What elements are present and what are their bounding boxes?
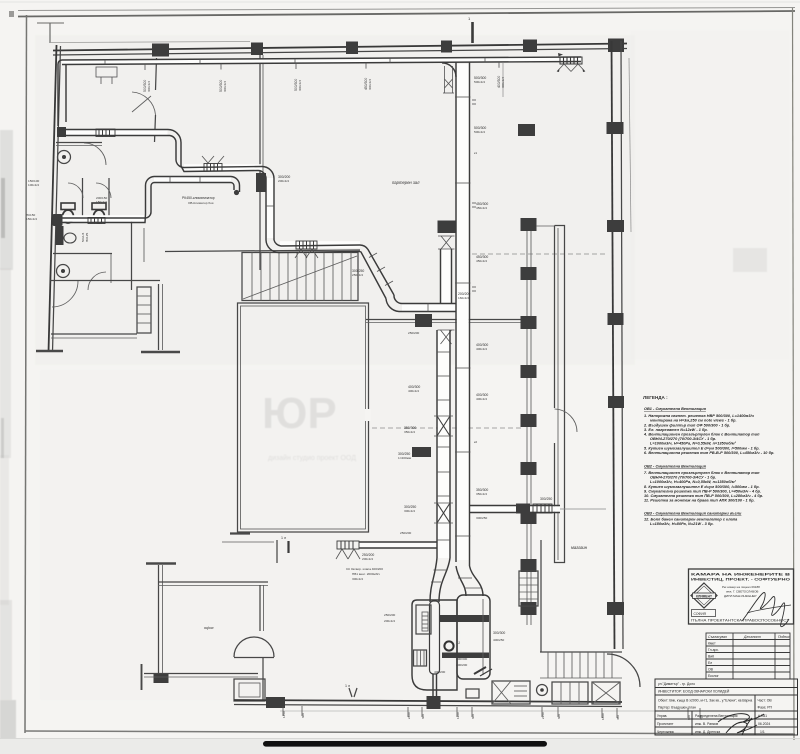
- V2 column 3: [521, 316, 537, 329]
- wall V1 pier dark: [256, 173, 266, 192]
- room R2 outline: [238, 303, 369, 532]
- branch D5 register hatched: [337, 541, 359, 549]
- stairs upper wall: [165, 250, 360, 252]
- wc toilet 1: [61, 203, 75, 210]
- svg-text:2150: 2150: [541, 712, 545, 719]
- D2 tick: [266, 205, 274, 207]
- top wall column 2: [251, 43, 263, 56]
- approval table T1: [706, 633, 790, 679]
- svg-text:ПК125: ПК125: [85, 233, 89, 242]
- T2 signature scribbles: [718, 714, 764, 723]
- narrow tall room C: [555, 226, 565, 563]
- left duct run parallel to trunk: [436, 330, 438, 558]
- branch B1 grille dark: [438, 221, 456, 234]
- sheet border right: [793, 8, 795, 740]
- vestibule nested rect inner: [239, 683, 260, 697]
- wall segment left of R3 top: [222, 541, 274, 543]
- floating column block mid room: [518, 124, 535, 136]
- svg-text:ИНВЕСТИЦ. ПРОЕКТ. - СОФТУЕРНО: ИНВЕСТИЦ. ПРОЕКТ. - СОФТУЕРНО: [691, 578, 790, 582]
- stamp box: [689, 569, 794, 624]
- dimension line below bottom wall: [280, 710, 700, 712]
- toilet entry diagonal door: [132, 96, 151, 112]
- B1 damper X: [441, 236, 452, 249]
- V2 column 2: [521, 267, 537, 280]
- svg-text:Рег.номер на лиценз 09188: Рег.номер на лиценз 09188: [722, 585, 760, 589]
- svg-text:инж. Г. СВЕТОСЛАВОВ: инж. Г. СВЕТОСЛАВОВ: [726, 590, 758, 594]
- staircase diagonal: [243, 256, 357, 299]
- svg-text:дизайн студио проект ООД: дизайн студио проект ООД: [268, 454, 356, 462]
- right wall column 4: [608, 396, 624, 408]
- svg-text:Длъжност: Длъжност: [743, 635, 761, 639]
- svg-text:300х1/4: 300х1/4: [501, 77, 505, 88]
- svg-text:300х1/4: 300х1/4: [352, 577, 363, 581]
- svg-text:300х1/4: 300х1/4: [368, 79, 372, 90]
- left scan-edge smudge band 2: [0, 268, 11, 458]
- D3 corner to west: [60, 212, 151, 218]
- svg-text:150х1/4: 150х1/4: [96, 200, 107, 204]
- V2 column 8: [521, 559, 537, 572]
- svg-text:300/250: 300/250: [476, 516, 487, 520]
- faint line across bottom: [0, 738, 800, 740]
- right wall offset faint line: [629, 58, 631, 232]
- svg-text:Проектант: Проектант: [657, 722, 674, 726]
- branch B3 duct right: [470, 505, 560, 507]
- sheet border left: [25, 15, 27, 733]
- svg-text:ОВН/4-270/270 (70/700-3/4СУ -: ОВН/4-270/270 (70/700-3/4СУ - 1 бр.: [650, 437, 716, 441]
- wc toilet 2: [92, 203, 106, 210]
- svg-text:250/200: 250/200: [408, 331, 419, 335]
- damper slash right of AHU: [474, 667, 486, 674]
- svg-text:ОВ3 - Смукателна Вентилация са: ОВ3 - Смукателна Вентилация санитарни въ…: [644, 512, 742, 516]
- B3 dark fitting: [516, 504, 530, 514]
- stairs bottom right treads: [540, 651, 622, 653]
- svg-text:1. Напорожна нагнет. решетка: 1. Напорожна нагнет. решетка НВР 500/300…: [644, 414, 755, 418]
- sheet border top outer: [18, 8, 795, 11]
- svg-text:инж. В. Ранков: инж. В. Ранков: [695, 722, 718, 726]
- svg-text:400/200: 400/200: [456, 663, 467, 667]
- D2 register hatched 1: [96, 129, 115, 137]
- bottom-right door arc: [607, 654, 640, 687]
- svg-text:150х1/4: 150х1/4: [26, 217, 37, 221]
- equipment box row 2: [592, 682, 620, 704]
- R3 right wall lower: [262, 658, 264, 700]
- riser stub below wall column: [443, 66, 454, 93]
- AHU duct sleeve through: [430, 601, 440, 674]
- bottom wall dark block: [266, 697, 285, 708]
- svg-text:250/200: 250/200: [384, 613, 395, 617]
- svg-text:5. Кутиен шумозаглушител Е d: 5. Кутиен шумозаглушител Е d=ум 500/300,…: [644, 447, 760, 451]
- svg-text:450х1/4: 450х1/4: [476, 259, 487, 263]
- lower room door arc: [52, 281, 78, 307]
- small register under D1: [96, 67, 117, 77]
- svg-text:КЛИМЕНТ: КЛИМЕНТ: [696, 594, 712, 598]
- svg-text:Чертожник: Чертожник: [657, 730, 674, 734]
- D1 end register hatched: [557, 53, 585, 72]
- trunk S-jog into right unit: [456, 566, 466, 596]
- svg-text:ДИПЛ.МАШ.ИНЖЕНЕР: ДИПЛ.МАШ.ИНЖЕНЕР: [724, 594, 757, 598]
- section marks bottom center: [349, 688, 352, 697]
- svg-text:2. Въздушен филтър тип ОФ 50: 2. Въздушен филтър тип ОФ 500/300 - 1 бр…: [643, 424, 730, 428]
- bottom-left room R3 top cap: [146, 562, 176, 564]
- svg-text:партерен зал: партерен зал: [392, 180, 420, 185]
- V2 column 5: [521, 414, 537, 427]
- trunk joint ticks: [455, 97, 476, 536]
- right-side faint blotch: [733, 248, 767, 272]
- left dark streak 2: [1, 418, 4, 458]
- svg-text:Част: ОВ: Част: ОВ: [758, 699, 773, 703]
- svg-text:Обект: Вик, къща В х2000, м-т1: Обект: Вик, къща В х2000, м-т1, Зак кв.,…: [658, 699, 752, 703]
- toilet-block right wall segment: [131, 221, 133, 290]
- D2 register hatched 3: [296, 241, 317, 249]
- D2 diagonal section: [360, 245, 394, 295]
- svg-text:300х1/4: 300х1/4: [223, 81, 227, 92]
- R3 bottom-left I-serif: [141, 664, 143, 690]
- faint top scan line: [0, 2, 800, 3]
- R3 top wall: [158, 581, 268, 583]
- AHU dark band 2: [442, 653, 489, 659]
- louver unit L1: [492, 681, 530, 704]
- dim ticks below bottom wall: [283, 706, 700, 718]
- left scan-edge smudge band: [0, 130, 13, 270]
- AHU right unit: [457, 595, 490, 679]
- svg-text:8. Кутиен шумозаглушител Е d: 8. Кутиен шумозаглушител Е d=ум 500/300,…: [644, 485, 760, 489]
- equipment box row 1: [552, 682, 588, 704]
- faint dashed line upper right room: [472, 253, 608, 255]
- V2 column 4: [521, 365, 537, 378]
- damper dark box at wall junction: [415, 314, 432, 327]
- wall left of bottom stairs: [540, 540, 542, 652]
- D1 joint ticks: [105, 58, 485, 65]
- D2 corner 2 down: [262, 167, 274, 241]
- stall door arc 1: [68, 183, 83, 198]
- top-left tick detail vertical: [49, 23, 51, 43]
- duct D3 horizontal (PK450): [154, 176, 231, 178]
- wall above R3: [276, 540, 278, 563]
- left scan-edge smudge band 3: [0, 455, 9, 605]
- V2 column 1: [521, 218, 537, 231]
- bottom exterior wall: [234, 700, 622, 702]
- ladder box below room C: [519, 571, 538, 606]
- R3 door arc: [234, 637, 274, 657]
- svg-text:магазин: магазин: [571, 545, 588, 550]
- stall bottom wall: [53, 253, 112, 255]
- svg-text:250х1/4: 250х1/4: [352, 273, 363, 277]
- svg-text:Управ.: Управ.: [657, 714, 667, 718]
- left dark streak: [1, 178, 5, 238]
- svg-text:ЮР: ЮР: [262, 389, 337, 438]
- sleeve tail: [432, 674, 434, 697]
- main trunk duct vertical: [455, 62, 457, 562]
- svg-text:400/250: 400/250: [493, 638, 504, 642]
- B3 thin continuation: [560, 508, 606, 510]
- svg-text:06.2024: 06.2024: [758, 722, 770, 726]
- svg-text:к1: к1: [474, 151, 477, 155]
- R3 bottom wall: [144, 673, 258, 675]
- svg-text:ОВН/4-270/270 (70/700-3/4СУ -: ОВН/4-270/270 (70/700-3/4СУ - 1 бр.: [650, 476, 716, 480]
- svg-text:ул."Димитър" - гр. Доло: ул."Димитър" - гр. Доло: [658, 682, 695, 686]
- bottom-left corner smudge: [0, 700, 16, 754]
- svg-text:L=180м3/ч, Н=80Ра, N=21W - 3 б: L=180м3/ч, Н=80Ра, N=21W - 3 бр.: [650, 522, 714, 526]
- AHU fan: [444, 641, 453, 650]
- svg-text:Съгласувал: Съгласувал: [708, 635, 727, 639]
- left run damper X 2: [437, 503, 450, 523]
- left run S-jog into AHU sleeve: [430, 558, 437, 602]
- sheet border bottom: [25, 731, 795, 734]
- right wall column 5: [607, 602, 624, 615]
- svg-text:500х1/4: 500х1/4: [474, 80, 485, 84]
- wall H1 under duct: [366, 319, 533, 321]
- D2 register hatched 2: [204, 164, 222, 172]
- branch B2 damper X below wall: [441, 330, 452, 344]
- D2 diagonal ticks: [369, 253, 377, 258]
- room R2 right-wall opening: [365, 409, 371, 421]
- svg-text:ПЪЛНА ПРОЕКТАНТСКА ПРАВОСПОСОБ: ПЪЛНА ПРОЕКТАНТСКА ПРАВОСПОСОБНОСТ: [691, 619, 789, 623]
- svg-text:100х1/4: 100х1/4: [28, 183, 39, 187]
- svg-text:Партер: Въздушен план: Партер: Въздушен план: [658, 706, 696, 710]
- svg-text:Гл.арх.: Гл.арх.: [708, 648, 719, 652]
- room C inner line: [557, 228, 559, 560]
- toilet block footing serif right: [141, 351, 180, 354]
- drop pipe dark: [56, 226, 64, 245]
- svg-text:600: 600: [421, 714, 425, 719]
- stall right wall lower: [110, 254, 112, 283]
- left exterior wall: [49, 45, 57, 352]
- svg-text:300х1/4: 300х1/4: [298, 80, 302, 91]
- lower room bottom wall: [51, 333, 137, 335]
- wall register dark left: [412, 447, 431, 457]
- right wall column 2: [607, 220, 624, 232]
- B3 hatch fitting: [533, 504, 552, 513]
- svg-text:300/300: 300/300: [493, 631, 505, 635]
- svg-text:7. Вентилационен прозвъртуле: 7. Вентилационен прозвъртулен блок с Вен…: [644, 471, 760, 475]
- duct drop along left wall: [57, 70, 59, 126]
- toilet door arc upper: [84, 143, 106, 165]
- D3/D4 register hatched: [88, 218, 105, 224]
- D2 end tick: [427, 304, 429, 312]
- svg-text:1/1: 1/1: [760, 730, 765, 734]
- svg-text:Ел: Ел: [708, 661, 712, 665]
- duct interiors white: [59, 57, 582, 560]
- top exterior wall: [53, 44, 627, 51]
- svg-text:1=200мм: 1=200мм: [398, 456, 411, 460]
- room C top connector: [536, 225, 554, 227]
- svg-text:300/250: 300/250: [540, 497, 552, 501]
- svg-text:600: 600: [471, 714, 475, 719]
- svg-text:1200: 1200: [456, 712, 460, 719]
- svg-text:Разпределена Вентилация: Разпределена Вентилация: [695, 714, 738, 718]
- svg-text:Еколог: Еколог: [708, 674, 719, 678]
- bottom stall door arc: [88, 272, 106, 290]
- sleeve bottom dark block: [427, 696, 441, 709]
- faint drop line near label: [502, 63, 504, 97]
- svg-text:200х1/4: 200х1/4: [384, 619, 395, 623]
- stall door arc 2: [96, 183, 111, 198]
- main title block T2: [655, 679, 798, 735]
- svg-text:ЛЕГЕНДА :: ЛЕГЕНДА :: [643, 395, 668, 400]
- svg-text:1450: 1450: [282, 711, 286, 718]
- svg-text:РК450-климатизатор: РК450-климатизатор: [182, 196, 215, 200]
- R3 right wall upper: [259, 585, 261, 631]
- D2 corner 1: [168, 130, 181, 167]
- left wall footing serif: [36, 350, 63, 353]
- AHU hatched ladder lower-left: [414, 650, 427, 666]
- section flag top: [471, 22, 474, 43]
- sheet border top inner: [18, 11, 795, 17]
- left run joint ticks: [437, 352, 450, 540]
- svg-text:КАМАРА НА ИНЖЕНЕРИТЕ В: КАМАРА НА ИНЖЕНЕРИТЕ В: [691, 573, 790, 577]
- trunk tee fillet: [442, 63, 456, 77]
- AHU dark band 1: [439, 615, 489, 622]
- svg-text:600: 600: [301, 713, 305, 718]
- toilet stall wall 2: [108, 178, 110, 218]
- svg-text:160х1/4: 160х1/4: [458, 296, 469, 300]
- svg-text:ОВ: ОВ: [708, 668, 714, 672]
- svg-text:ИНВЕСТИТОР: ЕООД ОВЧАРСКИ ХОЛИ: ИНВЕСТИТОР: ЕООД ОВЧАРСКИ ХОЛИДЕЙ: [658, 689, 730, 693]
- svg-text:СОФИЯ: СОФИЯ: [694, 612, 707, 616]
- svg-text:Фаза: РП: Фаза: РП: [758, 706, 773, 710]
- right wall column 3: [608, 313, 624, 325]
- D3 left elbow: [145, 177, 154, 213]
- svg-text:10. Смукателна решетка тип ПВ-: 10. Смукателна решетка тип ПВ-Р 500/300,…: [644, 494, 763, 498]
- svg-text:монтирана на Н=3м,250 см note: монтирана на Н=3м,250 см note views - 1 …: [650, 419, 737, 423]
- svg-text:400/200: 400/200: [434, 670, 445, 674]
- scan tone washes: [35, 35, 635, 365]
- svg-text:ОВ2 - Смукателна Вентилация: ОВ2 - Смукателна Вентилация: [644, 465, 707, 469]
- svg-text:СК Затвор. клапа 400/200: СК Затвор. клапа 400/200: [346, 567, 383, 571]
- toilet wall horizontal upper: [56, 142, 102, 144]
- sink oval: [64, 233, 76, 243]
- toilet duct intake dark end: [57, 127, 66, 137]
- svg-text:300х1/4: 300х1/4: [147, 81, 151, 92]
- svg-text:1: 1: [458, 641, 460, 645]
- right exterior wall: [612, 41, 615, 649]
- svg-text:450х1/4: 450х1/4: [476, 206, 487, 210]
- svg-text:ВиК: ВиК: [708, 655, 714, 659]
- AHU bottom exit box: [466, 689, 479, 698]
- lower room ladder rect: [137, 287, 151, 333]
- heavy black bar bottom: [263, 741, 547, 747]
- faint dashed line mid right room: [372, 427, 524, 429]
- toilet wall vertical mid: [156, 58, 157, 90]
- lower room right wall: [158, 284, 160, 350]
- R3 left wall dark block: [154, 673, 169, 683]
- svg-text:ОВ-Климатор боя: ОВ-Климатор боя: [188, 201, 214, 205]
- left scan-edge smudge band 4: [0, 600, 12, 700]
- svg-text:400/300: 400/300: [456, 657, 467, 661]
- svg-text:офис: офис: [204, 625, 214, 630]
- AHU left protruding box: [416, 605, 431, 634]
- svg-text:450: 450: [616, 715, 620, 720]
- svg-text:250/200: 250/200: [400, 531, 411, 535]
- V2 column 7: [521, 511, 537, 524]
- svg-text:600: 600: [557, 714, 561, 719]
- room C door arc: [555, 409, 578, 432]
- svg-text:1 л: 1 л: [281, 536, 286, 540]
- D1 top-left elbow: [58, 60, 62, 70]
- section flag bottom: [287, 541, 289, 553]
- thin outer wall face line: [51, 42, 250, 43]
- toilet duct D2 horizontal 1: [58, 129, 168, 131]
- top-right corner column: [608, 39, 624, 53]
- svg-text:L=1000м3/ч, Н=450Ра, N=0,55кW,: L=1000м3/ч, Н=450Ра, N=0,55кW, n=1350об/…: [650, 442, 737, 446]
- wall V1 upper: [259, 55, 261, 173]
- top wall column 3: [346, 42, 358, 55]
- top wall column 5: [523, 40, 537, 53]
- D3 right elbow: [231, 177, 240, 193]
- svg-text:Кмет: Кмет: [708, 642, 716, 646]
- D2 horizontal 2: [176, 160, 262, 168]
- svg-text:500х1/4: 500х1/4: [474, 130, 485, 134]
- labels along top duct (vertical): [143, 62, 505, 92]
- toilet lower partition: [50, 280, 160, 282]
- top wall column 4: [441, 41, 452, 53]
- wall V1 lower: [259, 192, 261, 270]
- V2 column 6: [521, 462, 537, 475]
- svg-text:300х1/4: 300х1/4: [404, 509, 415, 513]
- stamp bottom-left small box: [692, 610, 716, 617]
- svg-text:400х1/4: 400х1/4: [408, 389, 419, 393]
- svg-text:1 л: 1 л: [345, 684, 350, 688]
- R3 left wall: [158, 565, 160, 674]
- vestibule nested rect outer: [234, 679, 265, 701]
- top wall column 1: [152, 44, 169, 57]
- V2 column 9: [521, 602, 537, 615]
- svg-text:200х1/4: 200х1/4: [362, 557, 373, 561]
- D2 corner 3 right: [266, 238, 360, 253]
- stamp signature scribble: [742, 592, 789, 626]
- svg-text:ОВ1 - Смукателна Вентилация: ОВ1 - Смукателна Вентилация: [644, 407, 707, 411]
- staircase: [242, 253, 358, 301]
- scan nub top-left: [9, 11, 14, 17]
- D3 vertical left: [145, 212, 147, 214]
- svg-text:350х1/4: 350х1/4: [404, 430, 415, 434]
- svg-text:350х1/4: 350х1/4: [476, 492, 487, 496]
- D2 bottom elbow: [386, 299, 456, 312]
- valve circle bottom: [537, 685, 548, 696]
- svg-text:инж. Д. Дренска: инж. Д. Дренска: [695, 730, 720, 734]
- svg-text:к2: к2: [474, 440, 477, 444]
- svg-text:9. Смукателна решетка тип ПВ: 9. Смукателна решетка тип ПВ-Р 500/300, …: [644, 490, 761, 494]
- svg-text:1800: 1800: [601, 713, 605, 720]
- svg-text:12. Боял банен санитарен венти: 12. Боял банен санитарен вентилатор с кл…: [644, 518, 737, 522]
- top-left tick detail horizontal: [37, 22, 64, 24]
- extract valve 3: [57, 265, 70, 278]
- svg-text:400х1/4: 400х1/4: [476, 397, 487, 401]
- svg-text:11. Решетка за монтаж на брава: 11. Решетка за монтаж на брава тип АПК 3…: [644, 499, 755, 503]
- toilet stall wall 1: [82, 178, 84, 218]
- svg-text:Подпис: Подпис: [778, 635, 790, 639]
- D4 end fan unit dark: [53, 214, 63, 226]
- svg-text:400х1/4: 400х1/4: [476, 347, 487, 351]
- top main supply duct D1: [62, 57, 581, 60]
- B1 drop duct: [440, 249, 442, 303]
- svg-text:3. Ел. нагревател N=12кW - 1: 3. Ел. нагревател N=12кW - 1 бр.: [644, 428, 708, 432]
- right wall column 1: [607, 122, 624, 134]
- extract valve 1: [58, 151, 71, 164]
- interior column line V2: [526, 218, 528, 625]
- bottom page-edge gray band: [0, 739, 800, 754]
- svg-text:L=1000м3/ч, Н=400Ра, N=0,55кW,: L=1000м3/ч, Н=400Ра, N=0,55кW, n=1350об/…: [650, 480, 737, 484]
- room R2 bottom-left serif: [230, 532, 250, 534]
- toilet door arc mid: [132, 92, 156, 115]
- svg-text:6. Вентилационна решетка тип: 6. Вентилационна решетка тип РВ-В-Р 500/…: [644, 451, 774, 455]
- stamp diamond logo: [691, 583, 717, 608]
- left run damper X 1: [437, 416, 450, 436]
- svg-text:4. Вентилационен прозвъртуле: 4. Вентилационен прозвъртулен блок с Вен…: [643, 433, 760, 437]
- svg-text:ПВ1 вент. 2000м3/ч: ПВ1 вент. 2000м3/ч: [352, 572, 380, 576]
- D5 duct to trunk: [359, 541, 437, 543]
- svg-text:200х1/4: 200х1/4: [278, 179, 289, 183]
